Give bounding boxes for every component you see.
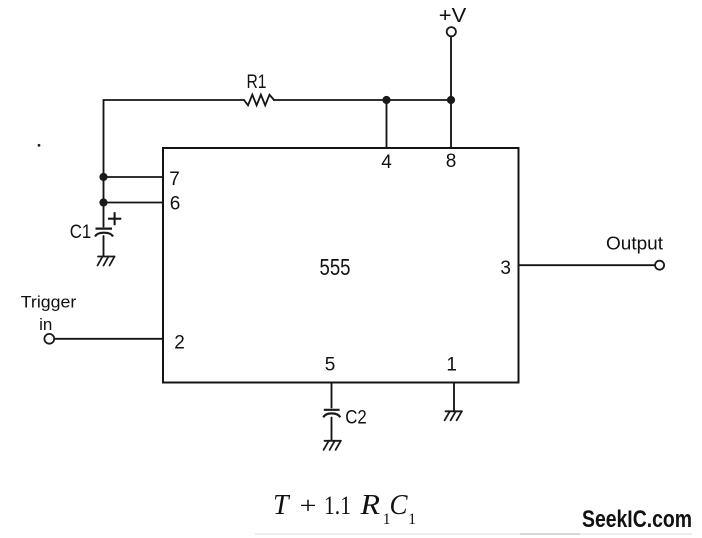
wire C1 to ground	[103, 236, 105, 256]
svg-text:C2: C2	[345, 408, 367, 429]
svg-text:Output: Output	[606, 234, 663, 254]
svg-text:R: R	[359, 490, 380, 521]
wire trigger to pin 2	[55, 338, 164, 340]
wire pin 3 output	[519, 264, 656, 266]
formula T + 1.1 R1C1	[273, 490, 416, 528]
resistor R1	[244, 95, 274, 106]
node junction dot pin7	[99, 173, 107, 181]
svg-text:1: 1	[408, 511, 416, 528]
node junction dot at pin4	[382, 96, 390, 104]
faint bottom scan line	[255, 533, 692, 534]
svg-text:C: C	[390, 490, 408, 521]
svg-text:Trigger: Trigger	[21, 293, 77, 312]
svg-text:7: 7	[169, 169, 180, 190]
ground (C2)	[324, 441, 341, 450]
ground (C1)	[98, 257, 115, 266]
svg-text:SeekIC.com: SeekIC.com	[582, 506, 692, 533]
terminal +V circle	[447, 27, 456, 36]
svg-text:1: 1	[446, 355, 457, 376]
svg-text:1.1: 1.1	[324, 491, 351, 520]
svg-text:+: +	[300, 494, 317, 520]
svg-text:C1: C1	[70, 222, 92, 243]
capacitor C2 plates	[323, 410, 340, 418]
wire R1 top horizontal right part	[274, 99, 451, 101]
node junction dot pin6	[99, 198, 107, 206]
wire pin4 vertical	[386, 100, 388, 148]
wire pin 5 to C2	[331, 383, 333, 408]
node junction dot at R1/pin8	[447, 96, 455, 104]
wire pin 6	[104, 202, 164, 204]
svg-text:555: 555	[320, 254, 351, 280]
svg-text:T: T	[273, 490, 291, 521]
capacitor C1 plates	[95, 229, 113, 237]
C1 polarity plus	[108, 212, 121, 225]
ground (pin 1)	[445, 411, 462, 420]
svg-text:5: 5	[325, 355, 336, 376]
svg-text:4: 4	[381, 152, 392, 173]
wire R1 top horizontal left part	[104, 99, 245, 101]
svg-text:2: 2	[174, 333, 185, 354]
svg-text:3: 3	[500, 258, 511, 279]
IC body U1 555	[163, 148, 519, 383]
svg-text:in: in	[39, 315, 52, 334]
terminal Output circle	[655, 261, 664, 270]
svg-text:8: 8	[446, 151, 457, 172]
terminal Trigger circle	[44, 334, 54, 344]
svg-text:6: 6	[170, 194, 181, 215]
wire left vertical to C1	[103, 100, 105, 227]
svg-text:R1: R1	[247, 72, 267, 93]
wire pin 7	[104, 176, 164, 178]
speck artifact	[38, 144, 41, 147]
wire +V vertical	[450, 37, 452, 148]
wire C2 to ground	[331, 418, 333, 441]
svg-text:+V: +V	[439, 5, 467, 27]
wire pin 1 stub	[453, 383, 455, 412]
